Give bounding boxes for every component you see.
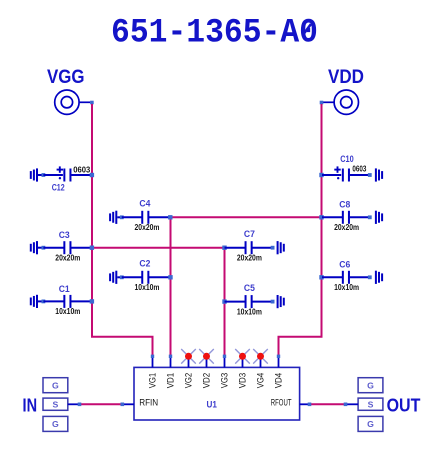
wire bbox=[322, 174, 341, 176]
wire VDD bus bbox=[279, 104, 322, 356]
svg-text:VG3: VG3 bbox=[220, 373, 230, 389]
ground bbox=[109, 211, 117, 224]
svg-text:G: G bbox=[52, 380, 59, 390]
wire bbox=[71, 247, 91, 249]
junction bbox=[90, 299, 94, 303]
wire bbox=[117, 216, 122, 218]
no-connect X on pin VD3 bbox=[235, 349, 250, 364]
svg-text:20x20m: 20x20m bbox=[334, 222, 359, 232]
wire bbox=[38, 247, 43, 249]
pad G top (IN) bbox=[43, 378, 68, 393]
capacitor C12 polarized bbox=[52, 166, 72, 193]
svg-text:G: G bbox=[367, 380, 374, 390]
svg-text:G: G bbox=[52, 419, 59, 429]
pin VG4 bbox=[256, 356, 266, 388]
junction bbox=[120, 275, 124, 279]
wire bbox=[252, 247, 272, 249]
wire bbox=[225, 247, 246, 249]
wire bbox=[117, 276, 122, 278]
svg-text:10x10m: 10x10m bbox=[135, 282, 160, 292]
wire bbox=[322, 216, 342, 218]
svg-text:VD4: VD4 bbox=[274, 373, 284, 389]
pin VD4 bbox=[274, 355, 284, 389]
wire bbox=[70, 174, 91, 176]
no-connect X on pin VG4 bbox=[253, 349, 268, 364]
junction bbox=[319, 275, 323, 279]
title 651-1365-A0 bbox=[111, 14, 318, 53]
junction bbox=[90, 246, 94, 250]
ground bbox=[30, 168, 38, 181]
pin VD3 bbox=[238, 356, 248, 388]
wire bbox=[43, 174, 63, 176]
svg-text:VDD: VDD bbox=[328, 66, 364, 88]
svg-text:10x10m: 10x10m bbox=[237, 306, 262, 316]
pad S (OUT) bbox=[358, 398, 383, 410]
junction bbox=[168, 275, 172, 279]
pin RFIN bbox=[121, 398, 159, 408]
wire S pad stub bbox=[68, 403, 81, 407]
pin VG3 bbox=[220, 355, 230, 389]
junction bbox=[120, 215, 124, 219]
junction bbox=[42, 300, 46, 304]
pin VD2 bbox=[202, 356, 212, 388]
junction bbox=[271, 246, 275, 250]
svg-text:C12: C12 bbox=[52, 183, 65, 194]
junction bbox=[168, 215, 172, 219]
svg-text:OUT: OUT bbox=[387, 395, 421, 416]
wire bbox=[122, 276, 142, 278]
wire bbox=[225, 301, 246, 303]
ground bbox=[30, 241, 38, 254]
junction bbox=[368, 215, 372, 219]
svg-text:VD2: VD2 bbox=[202, 373, 212, 389]
pad G top (OUT) bbox=[358, 378, 383, 393]
junction bbox=[222, 246, 226, 250]
wire bbox=[38, 300, 43, 302]
capacitor C5 bbox=[244, 283, 256, 308]
power port VDD bbox=[320, 66, 364, 114]
wire VD1 net horizontal bbox=[171, 216, 322, 218]
svg-text:0603: 0603 bbox=[73, 164, 90, 174]
svg-text:C1: C1 bbox=[59, 284, 71, 295]
svg-text:G: G bbox=[367, 419, 374, 429]
junction bbox=[368, 275, 372, 279]
ground bbox=[277, 241, 285, 254]
svg-text:C4: C4 bbox=[139, 199, 151, 210]
ground bbox=[375, 211, 383, 224]
svg-text:IN: IN bbox=[23, 395, 38, 416]
svg-text:C6: C6 bbox=[339, 260, 350, 271]
svg-text:0603: 0603 bbox=[352, 164, 366, 174]
wire bbox=[43, 300, 64, 302]
wire bbox=[122, 216, 142, 218]
ground bbox=[109, 271, 117, 284]
no-connect X on pin VG2 bbox=[181, 349, 196, 364]
capacitor C7 bbox=[244, 229, 255, 254]
junction bbox=[319, 215, 323, 219]
svg-text:RFIN: RFIN bbox=[139, 398, 158, 408]
wire VGG bus bbox=[92, 104, 153, 356]
svg-text:10x10m: 10x10m bbox=[334, 282, 359, 292]
svg-text:10x10m: 10x10m bbox=[55, 306, 80, 316]
wire bbox=[38, 174, 43, 176]
capacitor C1 bbox=[59, 284, 72, 308]
wire bbox=[71, 300, 91, 302]
svg-text:U1: U1 bbox=[207, 400, 217, 410]
capacitor C10 polarized bbox=[334, 154, 353, 182]
ground bbox=[30, 295, 38, 308]
svg-text:20x20m: 20x20m bbox=[135, 222, 160, 232]
pin VG2 bbox=[184, 356, 194, 388]
svg-text:20x20m: 20x20m bbox=[55, 253, 80, 263]
op-amp U1 body bbox=[134, 367, 300, 420]
capacitor C3 bbox=[59, 230, 72, 254]
junction bbox=[222, 299, 226, 303]
wire bbox=[322, 276, 342, 278]
svg-text:VD3: VD3 bbox=[238, 373, 248, 389]
svg-text:C7: C7 bbox=[244, 229, 255, 240]
junction bbox=[90, 173, 94, 177]
wire S pad stub (OUT) bbox=[344, 403, 358, 407]
wire bbox=[149, 276, 171, 278]
pin VD1 bbox=[166, 355, 176, 389]
no-connect X on pin VD2 bbox=[199, 349, 214, 364]
pad G bottom (IN) bbox=[43, 416, 68, 431]
capacitor C2 bbox=[139, 259, 150, 284]
wire VG3 net vertical bbox=[224, 248, 226, 356]
ground bbox=[277, 295, 285, 308]
svg-text:C3: C3 bbox=[59, 230, 70, 241]
svg-text:VD1: VD1 bbox=[166, 373, 176, 389]
wire VD1 net vertical bbox=[170, 217, 172, 355]
power port VGG bbox=[47, 66, 94, 114]
wire bbox=[350, 216, 370, 218]
svg-text:S: S bbox=[368, 399, 374, 409]
svg-text:651-1365-A0: 651-1365-A0 bbox=[111, 14, 318, 53]
pad G bottom (OUT) bbox=[358, 416, 383, 431]
junction bbox=[271, 300, 275, 304]
svg-text:VG2: VG2 bbox=[184, 373, 194, 389]
junction bbox=[319, 173, 323, 177]
wire RFIN net bbox=[80, 403, 123, 405]
pad S (IN) bbox=[43, 398, 68, 410]
junction bbox=[42, 173, 46, 177]
svg-text:VG4: VG4 bbox=[256, 373, 266, 389]
ground bbox=[375, 168, 383, 181]
svg-text:VGG: VGG bbox=[47, 66, 85, 88]
wire bbox=[350, 276, 370, 278]
wire bbox=[350, 174, 370, 176]
pin RFOUT bbox=[271, 398, 312, 408]
junction bbox=[42, 246, 46, 250]
svg-text:20x20m: 20x20m bbox=[237, 253, 262, 263]
wire VG3 net horizontal bbox=[92, 247, 225, 249]
capacitor C8 bbox=[339, 200, 350, 224]
junction bbox=[368, 173, 372, 177]
ground bbox=[375, 271, 383, 284]
svg-text:S: S bbox=[53, 399, 59, 409]
wire bbox=[149, 216, 170, 218]
wire bbox=[252, 301, 272, 303]
wire RFOUT net bbox=[310, 403, 346, 405]
svg-text:C2: C2 bbox=[139, 259, 150, 270]
capacitor C4 bbox=[139, 199, 151, 224]
svg-text:RFOUT: RFOUT bbox=[271, 398, 292, 408]
svg-text:C8: C8 bbox=[339, 200, 350, 211]
wire bbox=[43, 247, 64, 249]
capacitor C6 bbox=[339, 260, 350, 284]
svg-text:VG1: VG1 bbox=[148, 373, 158, 389]
pin VG1 bbox=[148, 355, 158, 389]
svg-text:C5: C5 bbox=[244, 283, 256, 294]
